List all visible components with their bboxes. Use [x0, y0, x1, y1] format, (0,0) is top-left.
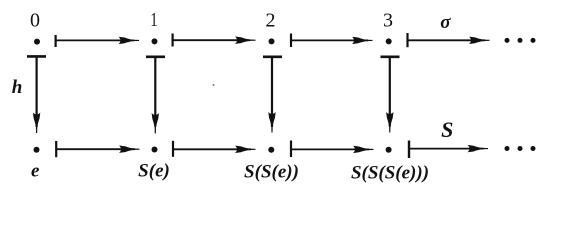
node 1 (top) — [152, 38, 158, 44]
label S (bottom right) — [441, 117, 453, 142]
arrow 2 to 3 (top, mapsto) — [291, 34, 373, 48]
label 3 — [383, 10, 393, 32]
vertical arrow h (column 0) — [27, 56, 46, 133]
label 0 — [30, 10, 40, 32]
svg-text:e: e — [31, 161, 40, 182]
svg-text:S: S — [441, 117, 453, 142]
node S(S(e)) (bottom) — [268, 147, 274, 153]
node S(e) (bottom) — [152, 147, 158, 153]
node S(S(S(e))) (bottom) — [386, 147, 392, 153]
ellipsis (bottom) — [505, 146, 536, 151]
arrow sigma 3 to ellipsis (top, mapsto) — [408, 33, 490, 47]
svg-text:h: h — [12, 77, 23, 98]
svg-text:S(S(e)): S(S(e)) — [244, 162, 299, 183]
label 1 — [150, 8, 157, 31]
label S(S(S(e))) — [351, 162, 429, 183]
label h — [12, 77, 23, 98]
label sigma — [440, 12, 451, 33]
node 0 (top) — [34, 39, 40, 45]
node 2 (top) — [269, 38, 275, 44]
arrow e to S(e) (bottom, mapsto) — [56, 141, 139, 157]
vertical arrow (column 3) — [381, 57, 400, 133]
svg-text:1: 1 — [150, 8, 157, 31]
arrow S(S(e)) to S(S(S(e))) (bottom, mapsto) — [291, 141, 374, 158]
label e — [31, 161, 40, 182]
ellipsis (top) — [505, 38, 536, 43]
label S(S(e)) — [244, 162, 299, 183]
svg-text:σ: σ — [440, 12, 451, 33]
svg-text:S(e): S(e) — [138, 160, 170, 181]
svg-text:0: 0 — [30, 10, 40, 32]
label 2 — [266, 10, 276, 32]
arrow 1 to 2 (top, mapsto) — [173, 34, 256, 47]
svg-text:2: 2 — [266, 10, 276, 32]
svg-text:S(S(S(e))): S(S(S(e))) — [351, 162, 429, 183]
arrow 0 to 1 (top, mapsto) — [56, 35, 139, 47]
node 3 (top) — [386, 38, 392, 44]
svg-text:3: 3 — [383, 10, 393, 32]
vertical arrow (column 2) — [263, 57, 282, 133]
vertical arrow (column 1) — [146, 57, 165, 134]
arrow S(e) to S(S(e)) (bottom, mapsto) — [173, 141, 256, 157]
scan speck — [213, 84, 215, 86]
arrow S to ellipsis (bottom, mapsto) — [408, 141, 488, 159]
label S(e) — [138, 160, 170, 181]
node e (bottom) — [34, 147, 40, 153]
